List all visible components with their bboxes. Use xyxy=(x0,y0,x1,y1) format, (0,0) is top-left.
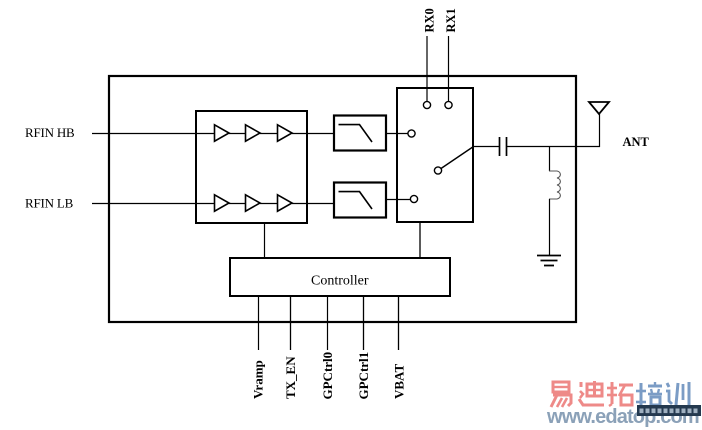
node shunt junction xyxy=(549,147,551,172)
watermark char yi (easy) red xyxy=(551,382,571,407)
svg-text:Vramp: Vramp xyxy=(251,360,266,399)
svg-text:GPCtrl0: GPCtrl0 xyxy=(320,352,335,400)
wire RFIN LB input xyxy=(92,203,215,205)
label ANT xyxy=(623,135,650,149)
label RFIN HB xyxy=(25,125,75,140)
amplifier A5 xyxy=(246,195,261,211)
svg-text:GPCtrl1: GPCtrl1 xyxy=(356,352,371,400)
label GPCtrl0 xyxy=(320,352,335,400)
port common circle xyxy=(434,167,441,174)
label GPCtrl1 xyxy=(356,352,371,400)
amplifier A6 xyxy=(278,195,293,211)
switch arm xyxy=(441,147,474,169)
antenna ANT xyxy=(589,102,609,147)
wire FL1 to switch xyxy=(386,133,408,135)
label VBAT xyxy=(392,364,407,399)
label TX_EN xyxy=(283,356,298,399)
watermark char tuo red xyxy=(607,382,633,406)
capacitor C1 xyxy=(500,137,507,156)
svg-text:TX_EN: TX_EN xyxy=(283,356,298,399)
controller block xyxy=(230,258,450,296)
amplifier block box xyxy=(196,111,307,223)
wire switch to capacitor xyxy=(473,146,499,148)
switch block box SW1 xyxy=(397,88,473,222)
inductor L1 xyxy=(549,171,560,199)
port RX1 circle xyxy=(445,101,452,108)
amplifier A4 xyxy=(215,195,230,211)
wire switch block to controller xyxy=(419,222,421,258)
wire pin GPCtrl1 xyxy=(363,296,365,350)
watermark char pei blue xyxy=(636,382,662,405)
label Vramp xyxy=(251,360,266,399)
wire pin Vramp xyxy=(258,296,260,350)
ground xyxy=(537,256,561,266)
watermark xyxy=(546,381,701,428)
label RFIN LB xyxy=(25,196,74,211)
svg-text:RX0: RX0 xyxy=(423,8,437,32)
svg-text:ANT: ANT xyxy=(623,135,650,149)
wire LB amp chain xyxy=(229,203,334,205)
port LB circle xyxy=(410,195,417,202)
amplifier A3 xyxy=(278,125,293,141)
amplifier A1 xyxy=(215,125,230,141)
watermark banner box xyxy=(637,405,701,416)
label RX0 xyxy=(423,8,437,32)
filter FL2 (LB low-pass) xyxy=(334,183,386,218)
wire HB amp chain xyxy=(229,133,334,135)
label RX1 xyxy=(444,8,458,32)
port HB circle xyxy=(408,130,415,137)
watermark banner text xyxy=(640,409,698,414)
wire RX0 xyxy=(426,36,428,101)
chip outline U1 xyxy=(109,76,576,322)
svg-text:RFIN HB: RFIN HB xyxy=(25,125,75,140)
watermark char di red xyxy=(579,381,604,405)
svg-text:RX1: RX1 xyxy=(444,8,458,32)
amplifier A2 xyxy=(246,125,261,141)
port RX0 circle xyxy=(423,101,430,108)
wire capacitor to antenna xyxy=(507,146,600,148)
wire pin GPCtrl0 xyxy=(327,296,329,350)
wire RX1 xyxy=(448,36,450,101)
wire pin TX_EN xyxy=(290,296,292,350)
wire inductor to ground xyxy=(549,199,551,255)
watermark char xun blue xyxy=(666,382,689,406)
wire FL2 to switch xyxy=(386,199,411,201)
filter FL1 (HB low-pass) xyxy=(334,116,386,151)
svg-text:RFIN LB: RFIN LB xyxy=(25,196,74,211)
wire amp block to controller xyxy=(264,223,266,258)
wire RFIN HB input xyxy=(92,133,215,135)
svg-text:Controller: Controller xyxy=(311,274,369,289)
svg-text:VBAT: VBAT xyxy=(392,364,407,399)
wire pin VBAT xyxy=(398,296,400,350)
